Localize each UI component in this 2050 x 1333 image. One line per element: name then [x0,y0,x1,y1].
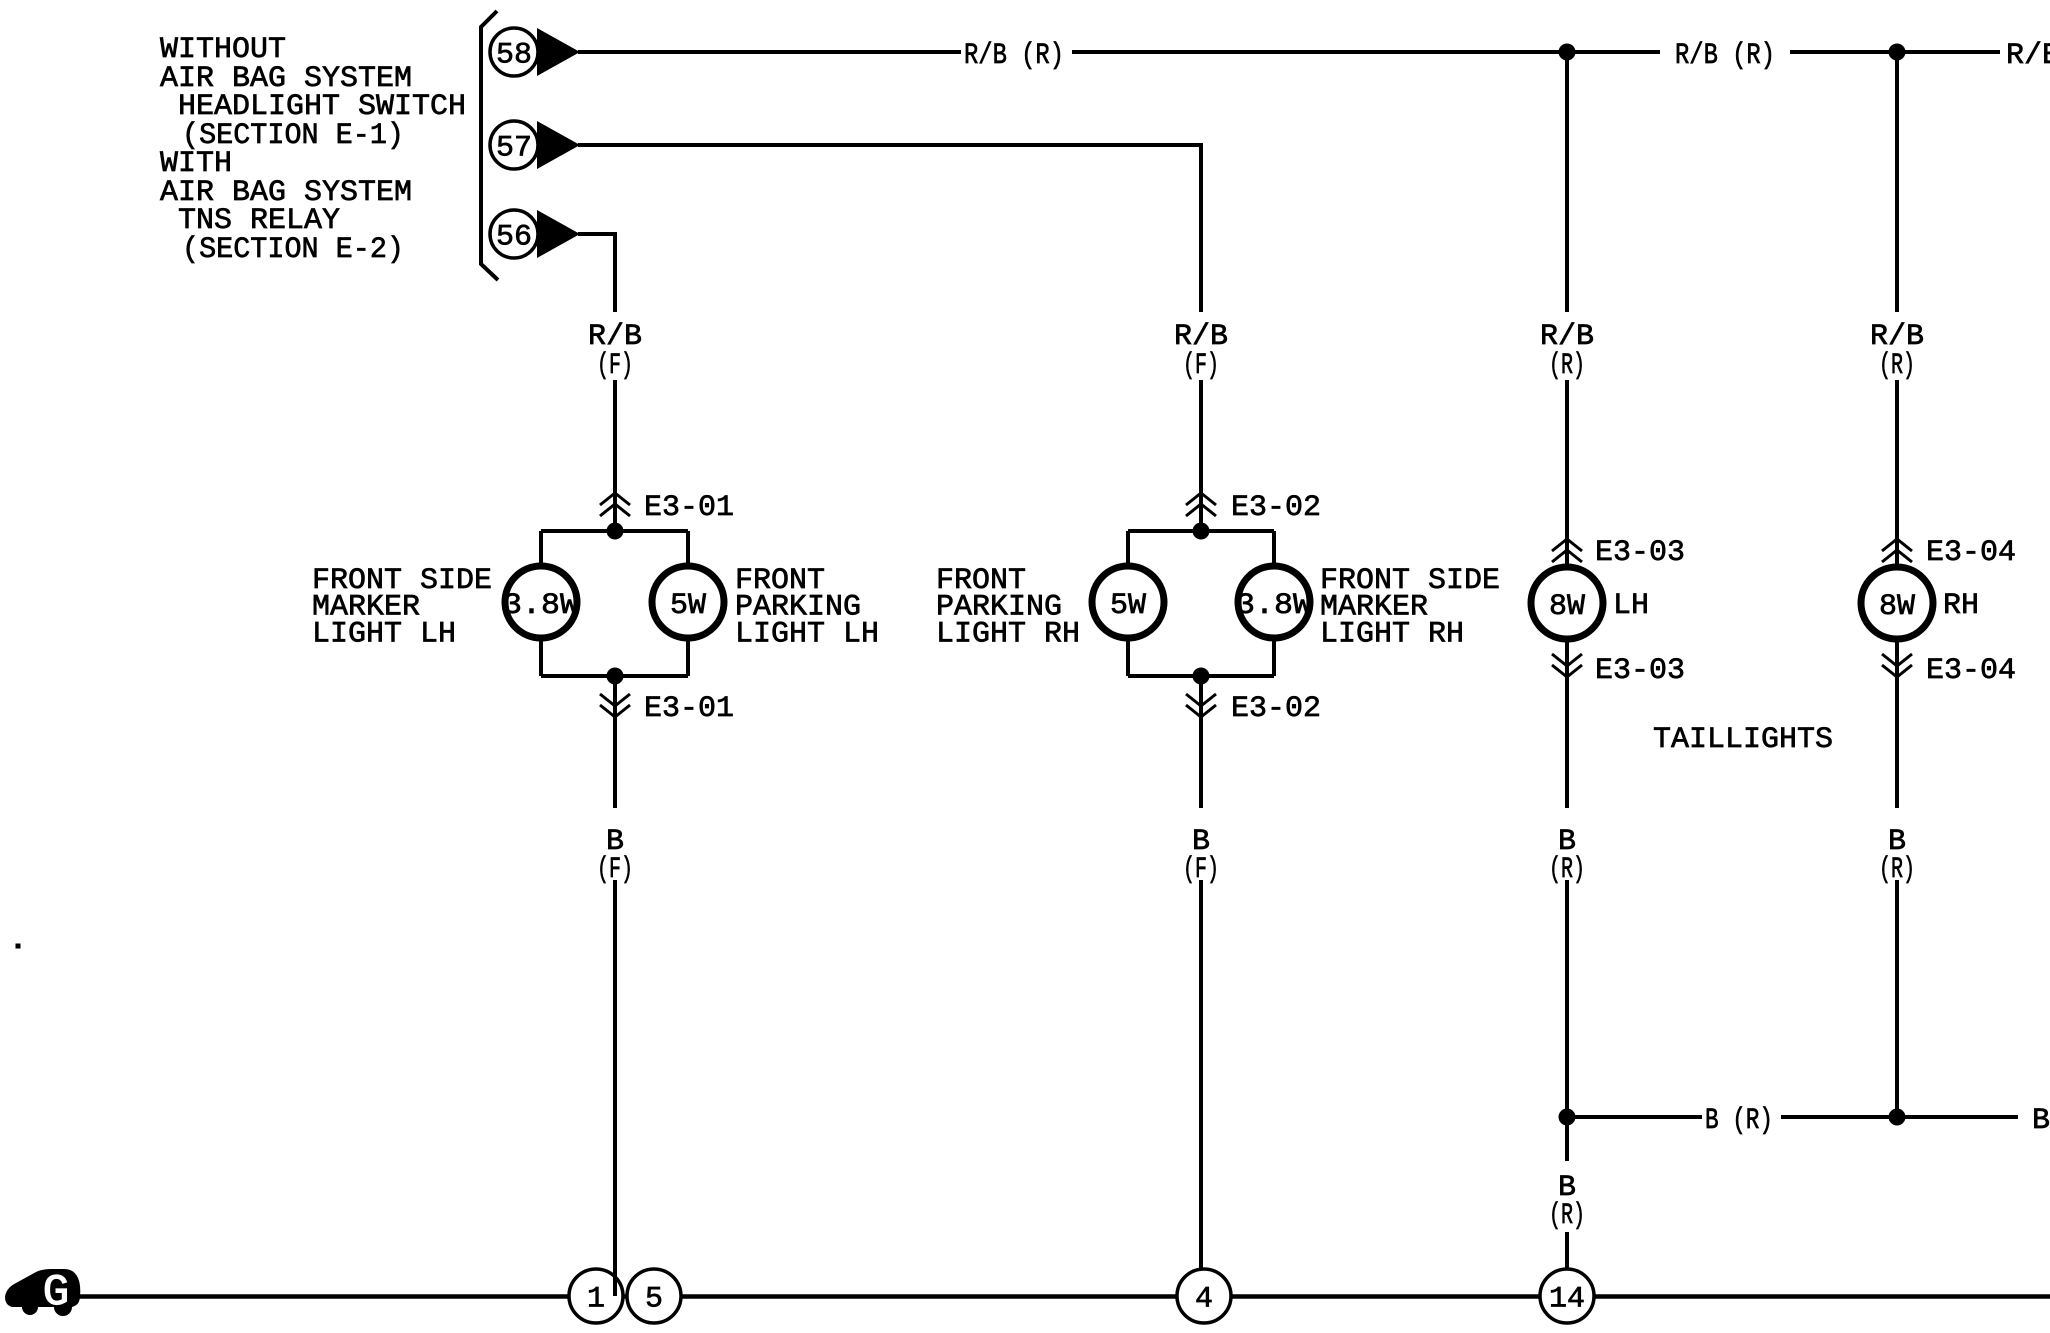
svg-text:(F): (F) [1183,853,1219,887]
svg-text:E3-01: E3-01 [644,491,734,525]
svg-text:E3-02: E3-02 [1231,692,1321,726]
svg-text:E3-02: E3-02 [1231,491,1321,525]
svg-text:LIGHT RH: LIGHT RH [1320,617,1464,651]
svg-text:LIGHT LH: LIGHT LH [735,617,879,651]
svg-text:E3-01: E3-01 [644,692,734,726]
svg-text:8W: 8W [1549,590,1585,624]
svg-text:R/B: R/B [2006,39,2050,73]
svg-text:(R): (R) [1549,349,1585,383]
svg-text:LIGHT RH: LIGHT RH [936,617,1080,651]
svg-text:B (R): B (R) [1705,1104,1773,1138]
svg-text:5W: 5W [670,589,706,623]
svg-text:(R): (R) [1879,349,1915,383]
svg-text:57: 57 [496,132,532,166]
svg-text:3.8W: 3.8W [503,589,579,623]
svg-text:RH: RH [1943,589,1979,623]
svg-text:5: 5 [645,1283,663,1317]
svg-text:R/B (R): R/B (R) [964,39,1064,73]
svg-text:58: 58 [496,39,532,73]
svg-text:G: G [43,1268,69,1318]
svg-text:(F): (F) [1183,349,1219,383]
svg-text:LH: LH [1613,589,1649,623]
svg-text:(F): (F) [597,853,633,887]
svg-text:E3-04: E3-04 [1926,654,2016,688]
svg-text:(SECTION E-2): (SECTION E-2) [182,233,404,267]
svg-text:3.8W: 3.8W [1236,589,1312,623]
svg-text:TAILLIGHTS: TAILLIGHTS [1653,723,1833,757]
svg-text:4: 4 [1195,1283,1213,1317]
svg-text:8W: 8W [1879,590,1915,624]
svg-text:R/B (R): R/B (R) [1675,39,1775,73]
svg-text:LIGHT LH: LIGHT LH [312,617,456,651]
svg-text:(R): (R) [1549,853,1585,887]
svg-text:E3-04: E3-04 [1926,536,2016,570]
svg-text:(F): (F) [597,349,633,383]
svg-text:E3-03: E3-03 [1595,536,1685,570]
svg-text:1: 1 [587,1283,605,1317]
svg-text:B: B [2032,1104,2050,1138]
svg-text:(R): (R) [1879,853,1915,887]
svg-text:56: 56 [496,221,532,255]
svg-text:(R): (R) [1549,1199,1585,1233]
svg-text:E3-03: E3-03 [1595,654,1685,688]
svg-text:14: 14 [1549,1283,1585,1317]
svg-text:5W: 5W [1110,589,1146,623]
